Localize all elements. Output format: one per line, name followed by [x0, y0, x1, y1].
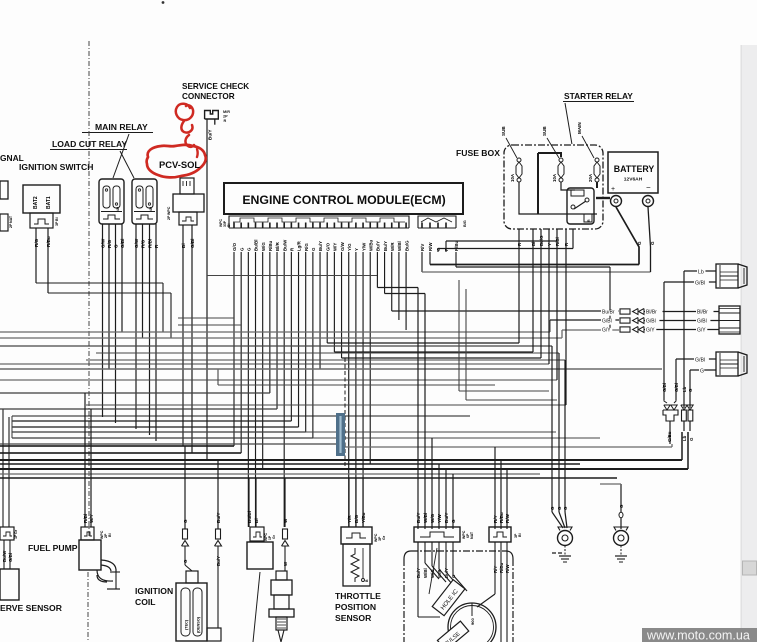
svg-text:G/Y: G/Y [646, 328, 655, 334]
svg-text:Bl: Bl [518, 533, 522, 537]
svg-text:THROTTLE: THROTTLE [335, 591, 381, 601]
svg-text:STARTER RELAY: STARTER RELAY [564, 91, 633, 101]
svg-text:W/Bl: W/Bl [423, 513, 428, 523]
svg-text:Bu/W: Bu/W [282, 239, 287, 251]
svg-text:G/Bl: G/Bl [695, 358, 705, 364]
svg-text:G: G [700, 369, 704, 375]
svg-text:R/Bu: R/Bu [46, 236, 51, 247]
svg-text:G: G [183, 559, 188, 563]
svg-text:www.moto.com.ua: www.moto.com.ua [646, 629, 750, 642]
svg-text:Bl: Bl [227, 224, 231, 227]
svg-text:IGNITION: IGNITION [135, 586, 173, 596]
svg-text:B: B [365, 579, 369, 582]
svg-text:12V6AH: 12V6AH [624, 177, 643, 183]
svg-text:G/Bl: G/Bl [674, 383, 679, 392]
svg-text:W/Bl: W/Bl [397, 241, 402, 251]
svg-text:W/Bl: W/Bl [423, 568, 428, 578]
svg-text:Bu/W: Bu/W [2, 550, 7, 562]
svg-text:4P: 4P [149, 206, 153, 211]
svg-text:G: G [114, 244, 119, 248]
svg-text:W/G: W/G [261, 242, 266, 251]
svg-text:−: − [646, 183, 651, 192]
svg-text:G: G [451, 519, 456, 523]
svg-text:Bu/Y: Bu/Y [383, 241, 388, 251]
svg-text:G: G [550, 506, 555, 510]
svg-text:R/G: R/G [304, 243, 309, 251]
svg-text:G/W: G/W [101, 238, 106, 248]
svg-text:Y: Y [547, 243, 552, 246]
svg-text:Bl: Bl [55, 217, 59, 221]
svg-text:Bl: Bl [108, 533, 112, 537]
svg-text:W/Y: W/Y [333, 243, 338, 251]
svg-text:CONNECTOR: CONNECTOR [182, 92, 235, 101]
svg-text:Bl: Bl [531, 242, 536, 246]
svg-text:Lg/R: Lg/R [297, 240, 302, 251]
svg-text:WPC: WPC [167, 206, 171, 215]
svg-text:900: 900 [470, 618, 475, 625]
svg-text:G: G [557, 506, 562, 510]
svg-text:G: G [637, 241, 642, 245]
svg-text:FUSE BOX: FUSE BOX [456, 148, 500, 158]
svg-text:Y/W: Y/W [361, 242, 366, 251]
svg-text:PCV-SOL: PCV-SOL [159, 159, 200, 170]
svg-text:G: G [311, 247, 316, 251]
svg-text:20A: 20A [588, 173, 593, 182]
svg-text:G/Bl: G/Bl [697, 319, 707, 325]
svg-text:R/Bu: R/Bu [454, 240, 459, 251]
svg-text:R/Y: R/Y [493, 566, 498, 573]
svg-text:SUB: SUB [542, 126, 547, 136]
svg-text:R/G: R/G [34, 238, 39, 247]
svg-text:10A: 10A [510, 173, 515, 182]
svg-text:LOAD CUT RELAY: LOAD CUT RELAY [52, 139, 127, 149]
svg-text:MAIN: MAIN [577, 122, 582, 134]
svg-text:Lb: Lb [698, 270, 704, 276]
svg-text:R/W: R/W [505, 513, 510, 523]
svg-text:Bl/Br: Bl/Br [697, 310, 708, 316]
svg-text:Bu/W: Bu/W [0, 512, 1, 524]
svg-text:G/O: G/O [325, 242, 330, 251]
svg-text:Bu/Y: Bu/Y [216, 513, 221, 523]
svg-text:NAT: NAT [9, 215, 13, 223]
svg-text:R/Bu: R/Bu [499, 562, 504, 573]
svg-text:R/W: R/W [428, 242, 433, 251]
svg-text:Y: Y [354, 248, 359, 251]
svg-text:R/G: R/G [141, 239, 146, 248]
svg-text:R/V: R/V [420, 244, 425, 251]
svg-text:(TEC): (TEC) [185, 619, 189, 630]
svg-text:Bu/Bl: Bu/Bl [254, 240, 259, 251]
svg-text:R/Bl: R/Bl [83, 514, 88, 523]
svg-text:BAT1: BAT1 [46, 196, 52, 209]
svg-text:G/Bl: G/Bl [120, 239, 125, 248]
svg-text:Bu/Y: Bu/Y [444, 513, 449, 523]
svg-text:G/Y: G/Y [697, 328, 706, 334]
svg-text:Bl/R: Bl/R [275, 241, 280, 251]
svg-text:POSITION: POSITION [335, 602, 376, 612]
svg-text:Bu/G: Bu/G [404, 240, 409, 251]
svg-text:G: G [688, 388, 693, 392]
svg-text:Gr: Gr [382, 535, 386, 540]
svg-text:G: G [247, 247, 252, 251]
svg-text:NAT: NAT [470, 531, 474, 539]
svg-text:G/W: G/W [134, 238, 139, 248]
svg-text:Y/G: Y/G [347, 243, 352, 251]
svg-text:BATTERY: BATTERY [614, 164, 655, 174]
svg-text:R: R [224, 119, 227, 123]
svg-text:Bu/Y: Bu/Y [416, 568, 421, 578]
svg-text:2P: 2P [223, 115, 228, 119]
svg-text:R/Bl: R/Bl [555, 237, 560, 246]
svg-text:Bu/Y: Bu/Y [318, 241, 323, 251]
svg-text:Bl: Bl [181, 243, 186, 248]
svg-text:Bl: Bl [254, 518, 259, 523]
svg-text:G/Bl: G/Bl [602, 319, 612, 325]
svg-text:Gr: Gr [272, 534, 276, 539]
svg-text:Bu/Y: Bu/Y [376, 241, 381, 251]
svg-text:G/Bl: G/Bl [662, 383, 667, 392]
svg-text:G/Bl: G/Bl [8, 553, 13, 562]
svg-text:G/W: G/W [340, 241, 345, 251]
svg-text:Y/R: Y/R [347, 515, 352, 523]
svg-text:G/Bl: G/Bl [190, 239, 195, 248]
svg-text:SENSOR: SENSOR [335, 613, 372, 623]
svg-text:10A: 10A [552, 173, 557, 182]
svg-text:Bu/Bl: Bu/Bl [247, 511, 252, 523]
svg-text:COIL: COIL [135, 597, 156, 607]
svg-text:G: G [619, 504, 624, 508]
svg-text:SERVICE CHECK: SERVICE CHECK [182, 82, 249, 91]
svg-text:B/G: B/G [354, 514, 359, 523]
svg-text:Lb: Lb [682, 386, 687, 392]
svg-text:+: + [611, 186, 615, 193]
svg-text:R/Bl: R/Bl [148, 239, 153, 248]
svg-text:Bu/Br: Bu/Br [602, 310, 615, 316]
svg-text:G/Bl: G/Bl [695, 281, 705, 287]
svg-text:Gr: Gr [14, 529, 18, 534]
svg-text:G: G [239, 247, 244, 251]
svg-text:G/Bl: G/Bl [646, 319, 656, 325]
svg-text:W/G: W/G [430, 513, 435, 523]
svg-text:R/Y: R/Y [493, 515, 498, 523]
svg-text:Bu/G: Bu/G [539, 235, 544, 246]
svg-text:BAT2: BAT2 [33, 196, 39, 209]
svg-text:G: G [689, 437, 694, 441]
svg-text:W/Y: W/Y [89, 514, 94, 523]
svg-text:G: G [650, 241, 655, 245]
svg-text:R/G: R/G [107, 239, 112, 248]
svg-text:W: W [283, 518, 288, 523]
svg-text:W/R: W/R [390, 242, 395, 251]
svg-text:SUB: SUB [501, 126, 506, 136]
svg-text:IGNITION SWITCH: IGNITION SWITCH [19, 162, 93, 172]
svg-text:(DENSO): (DENSO) [197, 616, 201, 633]
svg-text:Bu/Y: Bu/Y [208, 130, 213, 140]
svg-text:M/R: M/R [223, 110, 230, 114]
svg-text:G: G [183, 519, 188, 523]
svg-text:B/G: B/G [463, 220, 467, 227]
svg-text:FUEL PUMP: FUEL PUMP [28, 543, 78, 553]
svg-text:W/Bu: W/Bu [368, 239, 373, 251]
svg-text:G/Bu: G/Bu [667, 431, 672, 442]
svg-text:Bu/Y: Bu/Y [216, 556, 221, 566]
svg-text:Y/Bu: Y/Bu [361, 512, 366, 523]
svg-text:G: G [563, 506, 568, 510]
svg-text:G/Y: G/Y [602, 328, 611, 334]
svg-text:ERVE SENSOR: ERVE SENSOR [0, 603, 63, 613]
svg-text:R/Bu: R/Bu [268, 240, 273, 251]
svg-text:R/Bu: R/Bu [499, 512, 504, 523]
svg-text:MAIN RELAY: MAIN RELAY [95, 122, 148, 132]
svg-text:Bu/Y: Bu/Y [416, 513, 421, 523]
svg-text:Bl/Br: Bl/Br [646, 310, 657, 316]
svg-text:Y/W: Y/W [437, 514, 442, 523]
svg-text:R/W: R/W [505, 564, 510, 573]
svg-text:G/O: G/O [232, 242, 237, 251]
svg-text:R: R [587, 219, 591, 222]
svg-text:4P: 4P [116, 206, 120, 211]
svg-text:ENGINE CONTROL MODULE(ECM): ENGINE CONTROL MODULE(ECM) [242, 193, 445, 207]
